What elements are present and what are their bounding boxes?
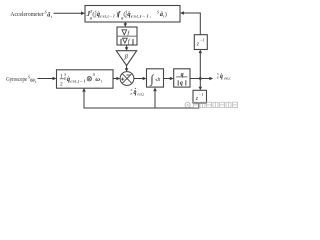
svg-text:Accelerometer: Accelerometer: [10, 11, 43, 18]
wire integrator to q-normalizer: [164, 77, 174, 81]
wire summing junction to integrator: [134, 77, 147, 81]
wire top z-block back to J-block: [180, 11, 201, 35]
block half q_est cross omega: [57, 70, 114, 88]
svg-text:·dt: ·dt: [155, 77, 161, 83]
wire gyroscope to q-dot-omega block: [38, 77, 57, 81]
wire q-dot block to summing junction, plus sign: [113, 77, 120, 81]
wire J-block down to normalization block: [124, 22, 128, 27]
gain triangle beta: [116, 51, 137, 66]
block integrator dt: [147, 69, 164, 87]
block z^-1 top feedback: [194, 35, 207, 50]
block J^T_g f_g gradient objective: [85, 6, 180, 23]
summing junction circle with cross: [120, 72, 134, 86]
svg-text:∥: ∥: [132, 39, 135, 46]
svg-text:): ): [165, 11, 167, 18]
svg-text:−1: −1: [200, 38, 204, 43]
wire gain to summing junction, minus sign: [125, 66, 129, 72]
svg-text:Gyroscope: Gyroscope: [6, 77, 27, 83]
svg-text:q: q: [180, 81, 183, 87]
watermark computer vision workshop: [185, 102, 238, 107]
label output q_est,t: [216, 72, 232, 82]
label Accelerometer input S a_t: [10, 10, 52, 19]
block z^-1 bottom feedback: [193, 90, 207, 103]
svg-text:−1: −1: [199, 92, 203, 97]
svg-text:∥: ∥: [120, 39, 123, 46]
svg-text:2: 2: [60, 81, 63, 87]
wire accelerometer to J-block: [54, 11, 86, 15]
wire output with junction dot: [190, 77, 213, 81]
svg-text:q̂: q̂: [134, 90, 137, 96]
wire junction down to bottom z-block: [199, 79, 203, 91]
svg-text:ω: ω: [95, 76, 100, 83]
wire junction up to top z-block: [199, 50, 203, 79]
svg-text:∥: ∥: [184, 80, 187, 86]
svg-text:q̂: q̂: [220, 74, 223, 80]
block gradient normalize (del f over norm del f): [117, 27, 137, 46]
wire bottom feedback to q-dot block and integrator: [82, 88, 199, 109]
block quaternion normalizer q over norm q: [174, 69, 190, 87]
label q-dot est under junction: [129, 88, 144, 98]
label Gyroscope input S omega_t: [6, 74, 37, 83]
wire normalize block to gain triangle: [125, 45, 129, 51]
